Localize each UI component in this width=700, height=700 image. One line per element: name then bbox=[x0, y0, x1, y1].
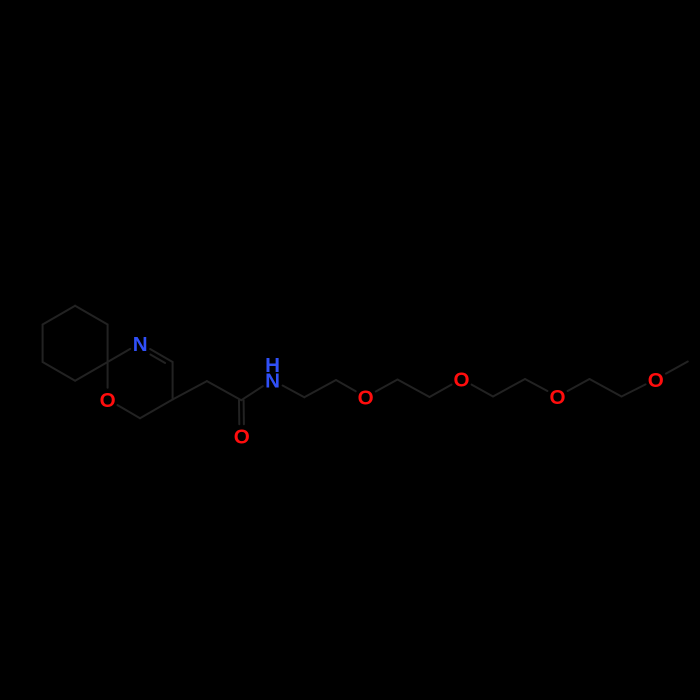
svg-text:O: O bbox=[100, 389, 116, 412]
bond O1-C2 bbox=[107, 362, 109, 388]
bond N9-Cb bbox=[283, 386, 305, 398]
bond S1-S2 bbox=[75, 306, 108, 325]
bond S5-C2 bbox=[75, 362, 108, 381]
bond S4-S5 bbox=[43, 362, 76, 381]
bond C7=O8 line1 bbox=[243, 400, 245, 424]
bond Cg-O18 bbox=[525, 379, 547, 391]
bond S2-S3 bbox=[43, 306, 76, 325]
svg-text:O: O bbox=[234, 425, 250, 448]
bond O15-Cf bbox=[472, 385, 493, 397]
bond N3=C4 inner bbox=[150, 355, 165, 364]
bond Cc-O12 bbox=[336, 380, 356, 391]
bond C4-C5 bbox=[172, 362, 174, 400]
bond Ch-Ci bbox=[590, 379, 622, 397]
bond C5-C6 bbox=[140, 400, 173, 419]
svg-text:N: N bbox=[133, 333, 148, 356]
bond Ce-O15 bbox=[430, 385, 452, 397]
svg-text:H: H bbox=[265, 354, 280, 377]
bond N3=C4 outer bbox=[150, 349, 173, 362]
svg-text:O: O bbox=[453, 369, 469, 392]
bond O21-Cj bbox=[666, 362, 688, 374]
bond Cd-Ce bbox=[398, 380, 430, 398]
bond Ca-C7 bbox=[207, 381, 241, 400]
svg-text:O: O bbox=[648, 369, 664, 392]
bond Ci-O21 bbox=[622, 384, 646, 396]
bond C5-Ca bbox=[173, 381, 207, 399]
svg-text:O: O bbox=[358, 387, 374, 410]
bond C2-N3 bbox=[108, 349, 131, 362]
bond S3-S4 bbox=[42, 325, 44, 363]
bond C7=O8 line2 bbox=[238, 400, 240, 424]
svg-text:O: O bbox=[549, 386, 565, 409]
bond Cf-Cg bbox=[493, 379, 525, 397]
bond C2-S1 bbox=[107, 325, 109, 363]
bond C6-O1 bbox=[118, 405, 141, 418]
bond O18-Ch bbox=[568, 379, 590, 391]
bond Cb-Cc bbox=[304, 380, 336, 397]
bond O12-Cd bbox=[376, 380, 398, 392]
bond C7-N9 bbox=[241, 386, 262, 400]
